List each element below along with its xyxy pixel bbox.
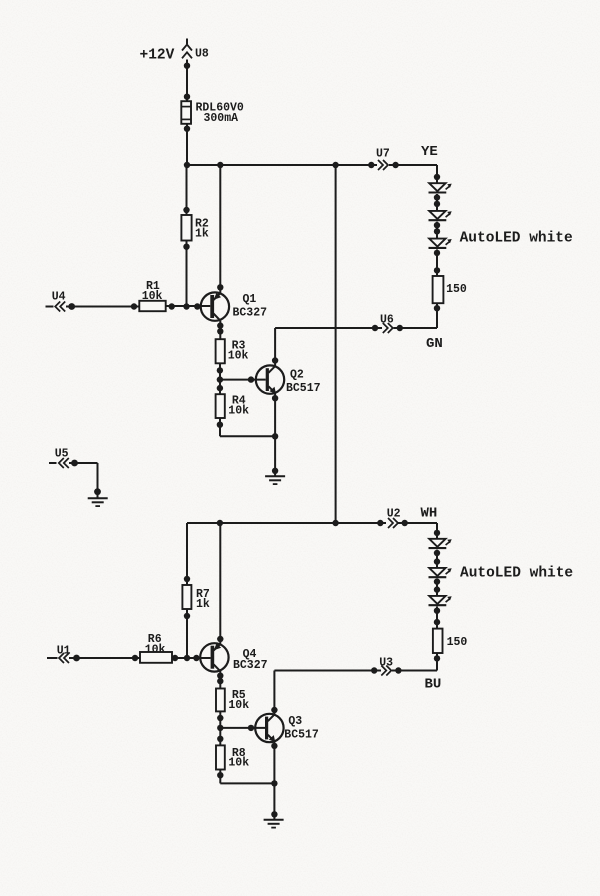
svg-text:GN: GN — [426, 336, 443, 352]
svg-text:Q3: Q3 — [288, 715, 302, 728]
svg-text:150: 150 — [447, 636, 468, 649]
svg-text:10k: 10k — [142, 290, 163, 303]
svg-text:BC517: BC517 — [286, 382, 321, 395]
svg-text:U1: U1 — [57, 644, 71, 657]
svg-text:U5: U5 — [55, 448, 69, 461]
svg-text:BC327: BC327 — [233, 307, 268, 320]
svg-text:AutoLED white: AutoLED white — [460, 231, 573, 247]
svg-text:Q1: Q1 — [243, 293, 257, 306]
svg-text:U3: U3 — [379, 656, 393, 669]
svg-text:10k: 10k — [228, 404, 249, 417]
svg-text:10k: 10k — [228, 699, 249, 712]
svg-text:U7: U7 — [376, 148, 390, 161]
svg-text:10k: 10k — [228, 350, 249, 363]
svg-text:YE: YE — [421, 144, 438, 160]
svg-text:AutoLED white: AutoLED white — [460, 566, 573, 582]
svg-text:1k: 1k — [195, 228, 209, 241]
svg-text:+12V: +12V — [140, 48, 175, 64]
svg-text:10k: 10k — [228, 757, 249, 770]
svg-text:U4: U4 — [52, 291, 66, 304]
svg-text:BC517: BC517 — [284, 729, 319, 742]
svg-text:10k: 10k — [145, 643, 166, 656]
svg-text:WH: WH — [421, 506, 438, 522]
svg-text:150: 150 — [446, 283, 467, 296]
svg-text:U2: U2 — [387, 507, 401, 520]
svg-text:300mA: 300mA — [204, 112, 239, 125]
svg-text:U8: U8 — [195, 48, 209, 61]
svg-text:BC327: BC327 — [233, 659, 268, 672]
svg-text:Q2: Q2 — [290, 369, 304, 382]
svg-text:BU: BU — [425, 677, 442, 693]
svg-text:1k: 1k — [196, 598, 210, 611]
svg-text:U6: U6 — [380, 314, 394, 327]
